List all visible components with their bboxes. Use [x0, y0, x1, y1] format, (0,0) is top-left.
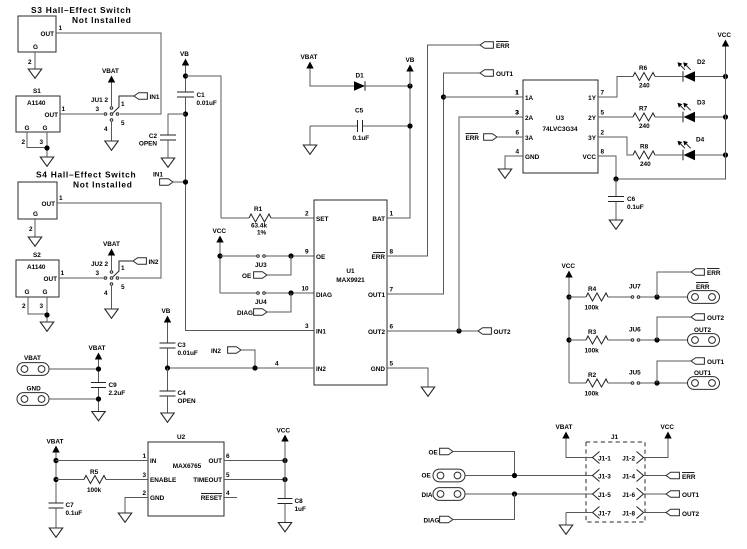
svg-text:IN1: IN1	[316, 329, 326, 336]
svg-text:2: 2	[305, 211, 309, 218]
tag DIAG (JU4)	[267, 293, 291, 312]
svg-text:VBAT: VBAT	[102, 68, 119, 75]
svg-text:VB: VB	[180, 51, 189, 58]
tag OE (JU3)	[267, 256, 291, 275]
tag OUT1 (right)	[657, 361, 691, 383]
svg-text:VBAT: VBAT	[103, 241, 120, 248]
svg-text:U1: U1	[346, 268, 355, 275]
capacitor C6	[615, 179, 617, 197]
svg-text:OUT2: OUT2	[368, 329, 385, 336]
resistor R3 100k	[569, 339, 586, 341]
svg-text:C5: C5	[355, 108, 364, 115]
svg-text:IN1: IN1	[153, 172, 163, 179]
svg-text:6: 6	[390, 324, 394, 331]
svg-text:VCC: VCC	[718, 32, 732, 39]
svg-text:VB: VB	[406, 57, 415, 64]
svg-text:OUT2: OUT2	[494, 329, 511, 336]
svg-text:OUT1: OUT1	[496, 71, 513, 78]
pin J1-7	[593, 507, 600, 519]
wire JU2 pin4	[111, 286, 113, 309]
svg-text:VBAT: VBAT	[24, 355, 41, 362]
pin J1-1	[593, 452, 600, 464]
svg-text:1: 1	[121, 265, 125, 272]
svg-text:4: 4	[104, 126, 108, 133]
svg-text:1: 1	[390, 211, 394, 218]
svg-text:DIAG: DIAG	[316, 292, 332, 299]
svg-text:SET: SET	[316, 216, 329, 223]
svg-text:5: 5	[121, 120, 125, 127]
jumper JU5	[631, 382, 634, 385]
tag OUT1 (top)	[480, 70, 493, 77]
svg-text:U2: U2	[177, 434, 186, 441]
pad OUT1	[688, 377, 720, 390]
svg-text:IN: IN	[150, 458, 157, 465]
svg-text:A1140: A1140	[27, 100, 46, 107]
tag ERR (right)	[657, 272, 691, 297]
svg-text:S1: S1	[33, 88, 41, 95]
node OUT1/1A junction	[441, 94, 446, 99]
pin J1-3	[593, 470, 600, 482]
ground C5	[303, 145, 316, 154]
svg-text:VCC: VCC	[213, 228, 227, 235]
svg-text:240: 240	[639, 83, 650, 90]
svg-text:D3: D3	[697, 100, 706, 107]
svg-text:IN1: IN1	[150, 94, 160, 101]
diode D1	[354, 81, 365, 91]
svg-text:OUT1: OUT1	[707, 359, 724, 366]
svg-text:ENABLE: ENABLE	[150, 477, 177, 484]
svg-text:VCC: VCC	[583, 154, 597, 161]
jumper JU4	[220, 292, 257, 294]
svg-text:VCC: VCC	[562, 263, 576, 270]
node VB junction	[183, 73, 188, 78]
svg-text:OUT2: OUT2	[707, 315, 724, 322]
svg-text:10: 10	[302, 286, 310, 293]
wire S2 pin2	[28, 297, 47, 314]
ground J1-7	[559, 525, 572, 534]
svg-text:4: 4	[275, 361, 279, 368]
pin J1-5	[593, 488, 600, 500]
svg-text:3: 3	[96, 270, 100, 277]
svg-text:1: 1	[59, 25, 63, 32]
svg-text:5: 5	[121, 284, 125, 291]
pin J1-4	[637, 470, 644, 482]
svg-text:RESET: RESET	[201, 495, 222, 502]
resistor R5 100k	[56, 479, 84, 481]
svg-text:OPEN: OPEN	[139, 141, 157, 148]
svg-text:2: 2	[601, 130, 605, 137]
svg-text:2: 2	[28, 59, 32, 66]
svg-text:J1-2: J1-2	[622, 456, 635, 463]
node IN1 junction	[183, 179, 188, 184]
wire U2 IN	[56, 460, 148, 462]
svg-text:C8: C8	[295, 498, 304, 505]
svg-text:6: 6	[515, 130, 519, 137]
wire S1 pin3	[46, 132, 48, 157]
wire S2 OUT to JU2 pin3	[59, 277, 104, 279]
LED D4	[678, 141, 696, 161]
svg-text:1: 1	[62, 106, 66, 113]
svg-text:1Y: 1Y	[588, 95, 597, 102]
svg-text:VCC: VCC	[661, 424, 675, 431]
svg-text:C4: C4	[178, 390, 187, 397]
svg-text:4: 4	[104, 290, 108, 297]
svg-text:C9: C9	[109, 382, 118, 389]
svg-text:3: 3	[305, 323, 309, 330]
svg-text:2: 2	[29, 226, 33, 233]
svg-text:2.2uF: 2.2uF	[109, 390, 126, 397]
resistor R2 100k	[569, 382, 586, 384]
svg-text:JU5: JU5	[629, 370, 641, 377]
wire to U3 1A	[444, 96, 524, 98]
node C9 top junction	[96, 366, 101, 371]
svg-text:1uF: 1uF	[295, 506, 306, 513]
LED D3	[678, 103, 696, 123]
node C6 junction	[613, 176, 618, 181]
svg-text:VBAT: VBAT	[47, 439, 64, 446]
svg-text:G: G	[25, 289, 30, 296]
node JU7 junction	[654, 294, 659, 299]
node VCC junction	[217, 253, 222, 258]
node S2 G junction	[44, 312, 49, 317]
resistor R4 100k	[569, 296, 586, 298]
resistor R1 63.4k	[221, 217, 249, 219]
ground JU1	[105, 141, 118, 150]
svg-text:100k: 100k	[87, 487, 102, 494]
wire U3 GND	[505, 156, 523, 169]
svg-text:G: G	[43, 125, 48, 132]
ground JU2	[105, 309, 118, 318]
tag OUT2 (right)	[657, 317, 691, 340]
svg-text:D2: D2	[697, 59, 706, 66]
svg-text:OE: OE	[316, 254, 326, 261]
svg-text:OPEN: OPEN	[178, 398, 196, 405]
wire U2 TIMEOUT	[224, 479, 285, 481]
jumper JU3	[220, 255, 257, 257]
svg-text:240: 240	[640, 161, 651, 168]
svg-text:3: 3	[40, 303, 44, 310]
svg-text:GND: GND	[27, 386, 42, 393]
svg-text:OUT: OUT	[42, 201, 56, 208]
svg-text:5: 5	[226, 472, 230, 479]
svg-text:OUT1: OUT1	[682, 492, 699, 499]
svg-text:100k: 100k	[585, 391, 600, 398]
ground S2	[40, 322, 53, 331]
svg-text:JU7: JU7	[629, 284, 641, 291]
wire U2 RESET stub	[224, 497, 237, 499]
svg-text:C1: C1	[197, 92, 206, 99]
svg-text:7: 7	[390, 287, 394, 294]
svg-text:J1-4: J1-4	[622, 474, 635, 481]
wire S3 pin1 to JU1 pin5	[56, 33, 161, 114]
node IN2 junction	[252, 365, 257, 370]
svg-text:IN2: IN2	[149, 259, 159, 266]
ground C2	[161, 158, 174, 167]
svg-text:D4: D4	[696, 137, 705, 144]
tag OUT2 (U1)	[478, 328, 491, 335]
svg-text:Not Installed: Not Installed	[73, 180, 133, 190]
svg-text:OE: OE	[429, 450, 439, 457]
svg-text:100k: 100k	[585, 348, 600, 355]
svg-text:6: 6	[226, 453, 230, 460]
svg-text:63.4k: 63.4k	[251, 223, 267, 230]
ground S1	[40, 157, 53, 166]
svg-text:R4: R4	[588, 286, 597, 293]
svg-text:J1: J1	[611, 434, 619, 441]
tag OUT2 (J1-8)	[666, 509, 679, 516]
capacitor C7	[49, 502, 64, 504]
svg-text:74LVC3G34: 74LVC3G34	[542, 126, 577, 133]
wire OUT2 to U3 2A	[459, 117, 523, 331]
svg-text:OUT: OUT	[45, 112, 59, 119]
tag ERR (top)	[480, 42, 493, 49]
svg-text:1: 1	[61, 270, 65, 277]
svg-text:R3: R3	[588, 329, 597, 336]
svg-text:0.01uF: 0.01uF	[178, 350, 198, 357]
svg-text:S4 Hall–Effect Switch: S4 Hall–Effect Switch	[36, 170, 136, 180]
svg-text:J1-8: J1-8	[622, 511, 635, 518]
svg-text:J1-3: J1-3	[598, 474, 611, 481]
svg-text:VBAT: VBAT	[89, 345, 106, 352]
svg-text:0.01uF: 0.01uF	[197, 100, 217, 107]
pin J1-2	[637, 452, 644, 464]
svg-text:D1: D1	[356, 73, 365, 80]
ground C4	[161, 413, 174, 422]
svg-text:Not Installed: Not Installed	[72, 15, 132, 25]
svg-text:7: 7	[601, 90, 605, 97]
svg-text:OUT1: OUT1	[368, 292, 385, 299]
svg-text:ERR: ERR	[466, 135, 480, 142]
capacitor C3	[160, 342, 176, 344]
wire U1 IN2 row	[168, 367, 315, 369]
ground U2	[118, 513, 131, 522]
node JU5 junction	[654, 380, 659, 385]
svg-text:C7: C7	[66, 502, 75, 509]
svg-text:8: 8	[390, 249, 394, 256]
node DIAG junction	[512, 491, 517, 496]
tag IN2 (JU2)	[133, 258, 146, 265]
wire to C2	[168, 114, 186, 135]
svg-text:3Y: 3Y	[588, 135, 597, 142]
LED D2	[678, 62, 696, 82]
wire VB to R1 branch	[186, 76, 222, 218]
svg-text:BAT: BAT	[372, 216, 385, 223]
svg-text:2Y: 2Y	[588, 115, 597, 122]
resistor R8 240	[633, 151, 655, 159]
wire U2 GND	[125, 498, 148, 514]
svg-text:OUT2: OUT2	[682, 511, 699, 518]
hall switch S3	[18, 16, 56, 52]
svg-text:1A: 1A	[525, 95, 534, 102]
svg-text:TIMEOUT: TIMEOUT	[193, 477, 222, 484]
svg-text:GND: GND	[525, 154, 540, 161]
svg-text:R2: R2	[588, 372, 597, 379]
capacitor C5	[310, 125, 358, 127]
svg-text:IN2: IN2	[316, 366, 326, 373]
resistor R6 240	[633, 73, 655, 81]
svg-text:100k: 100k	[585, 305, 600, 312]
svg-text:A1140: A1140	[27, 264, 46, 271]
node C1 bottom junction	[183, 111, 188, 116]
wire U3 VCC pin	[598, 156, 616, 179]
node C3 junction	[165, 365, 170, 370]
ground C9	[92, 412, 105, 421]
svg-text:2: 2	[142, 490, 146, 497]
wire U1 ERR to tag	[387, 45, 480, 256]
wire S4 pin1 to JU2 pin5	[57, 203, 161, 278]
svg-text:C3: C3	[178, 342, 187, 349]
tag ERR (J1-4)	[666, 472, 679, 479]
svg-text:MAX9921: MAX9921	[336, 277, 365, 284]
svg-text:5: 5	[601, 110, 605, 117]
svg-text:C2: C2	[149, 133, 158, 140]
hall switch S1 A1140	[16, 96, 60, 132]
svg-text:1: 1	[515, 90, 519, 97]
node C9 bottom junction	[96, 396, 101, 401]
pad ERR	[688, 291, 720, 304]
svg-text:R6: R6	[639, 65, 648, 72]
svg-text:ERR: ERR	[496, 43, 510, 50]
svg-text:GND: GND	[150, 495, 165, 502]
op-amp U1 MAX9921	[314, 200, 387, 385]
wire U1 GND	[387, 368, 428, 387]
svg-text:ERR: ERR	[696, 284, 710, 291]
svg-text:ERR: ERR	[372, 254, 386, 261]
wire U1 BAT to VB rail	[387, 86, 410, 218]
wire 1Y to R6	[598, 77, 633, 98]
tag IN1 (JU1)	[134, 93, 147, 100]
svg-text:IN2: IN2	[211, 348, 221, 355]
svg-text:OUT: OUT	[209, 458, 223, 465]
node OUT2 junction	[456, 328, 461, 333]
svg-text:G: G	[33, 44, 38, 51]
capacitor C4	[167, 368, 169, 391]
ground S4	[28, 237, 41, 246]
svg-text:5: 5	[390, 361, 394, 368]
capacitor C1	[177, 91, 194, 93]
svg-text:J1-1: J1-1	[598, 456, 611, 463]
svg-text:8: 8	[601, 149, 605, 156]
capacitor C8	[278, 498, 293, 500]
svg-text:240: 240	[639, 123, 650, 130]
node OE junction	[512, 473, 517, 478]
ground C8	[278, 523, 291, 532]
svg-text:3A: 3A	[525, 135, 534, 142]
svg-text:9: 9	[305, 249, 309, 256]
svg-text:OUT: OUT	[44, 276, 58, 283]
wire U2 OUT	[224, 460, 285, 462]
svg-text:OE: OE	[422, 473, 432, 480]
svg-text:R1: R1	[254, 206, 263, 213]
capacitor C2	[160, 134, 176, 136]
svg-text:G: G	[25, 125, 30, 132]
svg-text:VCC: VCC	[277, 428, 291, 435]
svg-text:JU3: JU3	[255, 262, 267, 269]
ground S3	[28, 69, 41, 78]
node JU6 junction	[654, 337, 659, 342]
svg-text:C6: C6	[627, 196, 636, 203]
svg-text:1%: 1%	[257, 230, 267, 237]
wire S4 pin2	[34, 219, 36, 237]
svg-text:DIAG: DIAG	[237, 310, 253, 317]
svg-text:3: 3	[96, 106, 100, 113]
svg-text:DIAG: DIAG	[424, 518, 440, 525]
svg-text:4: 4	[226, 490, 230, 497]
svg-text:OUT2: OUT2	[694, 327, 711, 334]
svg-text:0.1uF: 0.1uF	[66, 510, 83, 517]
svg-text:OUT1: OUT1	[694, 370, 711, 377]
svg-text:VB: VB	[162, 308, 171, 315]
wire S1 pin2	[27, 132, 47, 148]
ground C6	[609, 220, 622, 229]
svg-text:2: 2	[22, 303, 26, 310]
node JU3 junction	[288, 253, 293, 258]
svg-text:JU6: JU6	[629, 327, 641, 334]
svg-text:1: 1	[142, 453, 146, 460]
pad OUT2	[688, 334, 720, 347]
svg-text:S2: S2	[33, 252, 41, 259]
wire JU1 pin4	[111, 122, 113, 141]
svg-text:GND: GND	[371, 366, 386, 373]
svg-text:J1-6: J1-6	[622, 492, 635, 499]
hall switch S4	[18, 182, 57, 219]
capacitor C9	[91, 382, 106, 384]
svg-text:J1-5: J1-5	[598, 492, 611, 499]
svg-text:3: 3	[515, 110, 519, 117]
svg-text:VBAT: VBAT	[556, 424, 573, 431]
svg-text:JU2 2: JU2 2	[91, 261, 108, 268]
svg-text:J1-7: J1-7	[598, 511, 611, 518]
ground U3	[498, 169, 511, 178]
svg-text:U3: U3	[556, 115, 565, 122]
wire S1 OUT to JU1 pin3	[60, 113, 104, 115]
svg-text:R7: R7	[639, 106, 648, 113]
svg-text:2: 2	[22, 139, 26, 146]
svg-text:MAX6765: MAX6765	[173, 463, 202, 470]
ground U1	[421, 387, 434, 396]
buffer U3 74LVC3G34	[523, 80, 598, 173]
jumper JU7	[631, 296, 634, 299]
wire 2Y to R7	[598, 116, 633, 118]
wire C5 to ground	[309, 126, 311, 145]
node S1 G junction	[44, 145, 49, 150]
svg-text:4: 4	[515, 149, 519, 156]
pin J1-6	[637, 488, 644, 500]
svg-text:G: G	[43, 289, 48, 296]
wire S2 pin3	[46, 297, 48, 322]
ground C7	[49, 528, 62, 537]
svg-text:OUT: OUT	[41, 31, 55, 38]
svg-text:0.1uF: 0.1uF	[353, 135, 370, 142]
svg-text:3: 3	[142, 472, 146, 479]
wire S3 pin2	[34, 52, 36, 69]
svg-text:VBAT: VBAT	[301, 54, 318, 61]
svg-text:S3 Hall–Effect Switch: S3 Hall–Effect Switch	[31, 5, 131, 15]
wire U1 OUT1 to tag	[387, 73, 480, 294]
svg-text:JU1 2: JU1 2	[91, 97, 108, 104]
svg-text:1: 1	[59, 195, 63, 202]
svg-text:1: 1	[121, 101, 125, 108]
svg-text:ERR: ERR	[707, 270, 721, 277]
svg-text:0.1uF: 0.1uF	[627, 204, 644, 211]
pin J1-8	[637, 507, 644, 519]
tag OUT1 (J1-6)	[666, 491, 679, 498]
hall switch S2 A1140	[16, 260, 59, 297]
node C5/VB junction	[407, 123, 412, 128]
node JU4 junction	[288, 290, 293, 295]
svg-text:R5: R5	[90, 469, 99, 476]
svg-text:3: 3	[40, 139, 44, 146]
